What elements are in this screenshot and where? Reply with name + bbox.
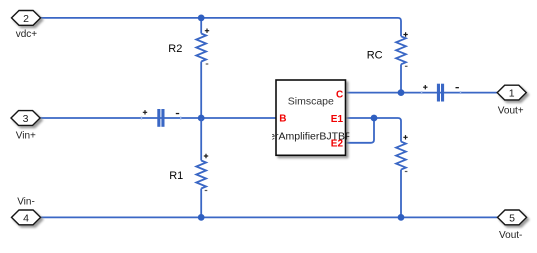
svg-text:3: 3 [23,113,29,125]
capacitor C2 plate left [437,84,440,102]
svg-text:Simscape: Simscape [288,95,334,107]
wire R1 top stem [200,118,202,161]
resistor RE [396,142,406,170]
wire R2 branch vertical [200,18,202,34]
port 5 hexagon [498,210,527,225]
svg-text:E2: E2 [331,139,344,150]
wire top rail from port2 to RC corner [41,18,401,36]
polarity minus C1 [176,113,179,114]
svg-text:Vout-: Vout- [499,230,522,241]
port 4 hexagon [12,210,41,225]
wire RC bottom stem [400,64,402,92]
wire Vin+ rail to block B [40,117,276,119]
port 2 hexagon [12,11,41,26]
svg-text:2: 2 [23,13,29,25]
resistor RC [396,36,406,64]
capacitor C1 plate left [157,109,160,127]
polarity minus RE [405,171,408,172]
wire block E2 riser [346,118,375,143]
wire R2 bottom stem [200,62,202,119]
wire R1 bottom stem [200,189,202,218]
port 1 hexagon [497,85,526,100]
resistor R1 [196,161,206,189]
polarity minus R2 [206,63,209,64]
svg-text:1: 1 [509,88,515,100]
svg-text:B: B [279,114,286,125]
junction Vin+ / R1 [198,115,205,122]
wire block C to port1 [346,92,498,94]
polarity minus C2 [456,87,459,88]
polarity plus R1 [204,154,208,158]
junction bottom rail / R1 [198,214,205,221]
block U1 Simscape amplifier body [276,80,346,155]
svg-text:R1: R1 [169,170,183,182]
capacitor C1 tick left [141,117,142,120]
capacitor C2 tick left [421,91,422,94]
polarity minus RC [405,66,408,67]
polarity plus R2 [205,29,209,33]
polarity minus R1 [205,190,208,191]
junction E1 / E2 [371,115,378,122]
capacitor C1 tick right [180,117,181,120]
svg-text:Vin+: Vin+ [16,130,36,141]
wire block E1 to RE corner [346,118,402,142]
resistor R2 [196,34,206,62]
svg-text:RC: RC [367,50,383,62]
svg-text:vdc+: vdc+ [16,29,38,40]
block U1 name erAmplifierBJTBF (clipped) [269,130,351,142]
port 3 hexagon [11,111,40,126]
capacitor C1 plate right [161,109,164,127]
polarity plus RE [403,135,407,139]
capacitor C2 plate right [441,84,444,102]
capacitor C2 tick right [460,91,461,94]
svg-text:5: 5 [509,212,515,224]
polarity plus C1 [143,110,147,114]
polarity plus RC [403,32,407,36]
wire RE bottom stem [400,170,402,218]
svg-text:R2: R2 [168,43,182,55]
svg-text:C: C [336,90,343,101]
junction C wire / RC [398,89,405,96]
svg-text:Vin-: Vin- [17,197,35,208]
svg-text:Vout+: Vout+ [498,106,524,117]
wire bottom rail [41,216,498,218]
junction top rail / R2 [198,15,205,22]
junction bottom rail / RE [398,214,405,221]
polarity plus C2 [423,85,427,89]
svg-text:E1: E1 [331,114,344,125]
svg-text:4: 4 [23,212,29,224]
